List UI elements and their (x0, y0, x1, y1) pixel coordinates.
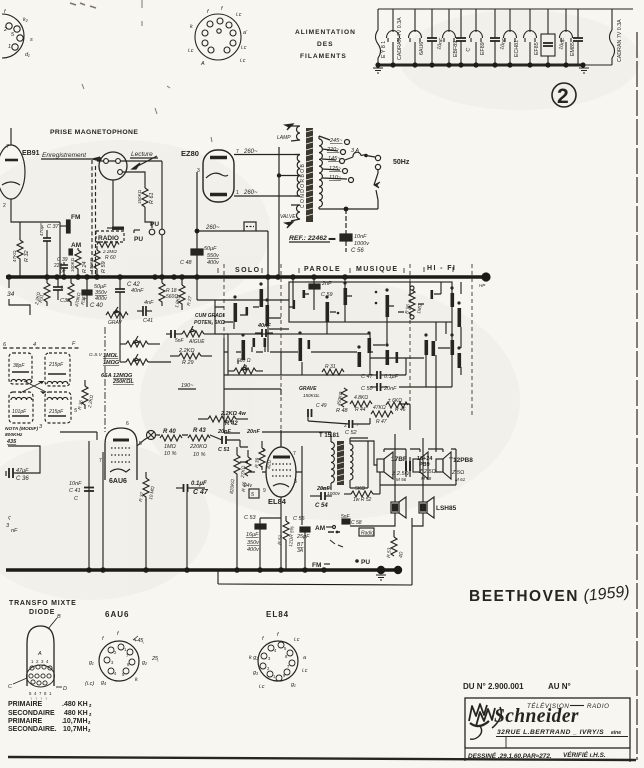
wire R61 down to PU (145, 211, 152, 228)
rotated tube labels (381, 17, 623, 62)
tube socket S2 (EM85 top) (188, 6, 248, 67)
test point (147, 431, 156, 440)
svg-text:800KHz: 800KHz (5, 432, 23, 438)
resistor R52 5K 1w (344, 486, 380, 503)
svg-text:k g₂: k g₂ (249, 655, 259, 661)
svg-text:T 15.81: T 15.81 (319, 433, 340, 439)
note 50nF 1000v (320, 486, 341, 497)
svg-text:PU: PU (150, 221, 159, 228)
svg-text:20nF: 20nF (246, 429, 260, 435)
svg-text:PAROLE: PAROLE (304, 266, 341, 273)
svg-text:i.c: i.c (236, 12, 242, 18)
svg-text:FILAMENTS: FILAMENTS (300, 53, 347, 60)
svg-text:215pF: 215pF (48, 362, 64, 368)
svg-text:D: D (63, 686, 67, 692)
svg-text:7: 7 (99, 458, 102, 464)
svg-text:2: 2 (3, 203, 6, 209)
svg-text:BEETHOVEN: BEETHOVEN (469, 588, 579, 605)
note CUM GRADI POTEN 5K (194, 313, 225, 326)
heater EF85 (524, 9, 537, 65)
stray note 3nF (6, 516, 18, 534)
svg-text:g₂: g₂ (142, 660, 148, 666)
svg-text:R 40: R 40 (163, 429, 176, 435)
potentiometer (volume) (120, 311, 171, 365)
fuse box (244, 222, 268, 276)
svg-text:VALVE: VALVE (280, 214, 296, 220)
svg-text:27KΩ: 27KΩ (240, 465, 247, 479)
switch RADIO (dashed box) (96, 227, 124, 243)
svg-text:PRIMAIRE: PRIMAIRE (8, 718, 43, 725)
capacitor (crossover) (406, 461, 410, 471)
ground bus (lower) (6, 568, 398, 571)
label AM (315, 525, 336, 532)
svg-text:7: 7 (6, 144, 9, 150)
svg-text:R 39: R 39 (254, 457, 261, 468)
svg-text:L: L (61, 285, 64, 291)
wires lower network (236, 322, 461, 358)
resistor R51 vertical (277, 516, 296, 570)
svg-text:i.c: i.c (302, 668, 308, 674)
svg-text:T12PB8: T12PB8 (449, 457, 473, 464)
svg-text:1MΩL: 1MΩL (103, 353, 119, 359)
svg-text:190~: 190~ (181, 383, 194, 389)
taps: 245 220 145 125 110 with terminals (326, 138, 354, 183)
svg-text:34: 34 (7, 291, 15, 298)
resistor R35 470K (68, 277, 87, 307)
svg-text:C 52: C 52 (345, 430, 357, 436)
svg-text:eine: eine (611, 730, 621, 736)
svg-text:C: C (8, 684, 12, 690)
svg-text:5KΩ: 5KΩ (355, 486, 365, 492)
svg-text:0.1μF: 0.1μF (191, 481, 207, 487)
node 190~ (178, 383, 196, 389)
capacitor C40 50uF 350v 400v (82, 277, 108, 309)
resistor R56 (in box) (404, 286, 423, 319)
bus junction dots (6, 274, 348, 280)
cathode wire down to node 260~ (197, 172, 244, 231)
IF transformer 215pF (45, 353, 70, 386)
resistor R60 2.2M (horizontal) (97, 242, 119, 262)
hifi feed wires (388, 358, 436, 404)
speaker return wires (350, 441, 456, 494)
NOTA note (5, 426, 38, 445)
resistor R46b 820K vertical (229, 447, 248, 570)
resistor R44 4.8K (350, 395, 372, 413)
svg-text:AU N°: AU N° (548, 682, 571, 691)
svg-text:101pF: 101pF (12, 409, 27, 415)
potentiometer AIGUE (175, 326, 215, 345)
IF transformer 101pF (9, 392, 33, 423)
capacitor C36 47uF (6, 468, 29, 482)
wires around EL84 (240, 432, 302, 570)
svg-text:1: 1 (236, 190, 239, 196)
label REF: 22462 (289, 235, 336, 242)
svg-text:R 29: R 29 (182, 360, 194, 366)
filament ground bus (bottom) (377, 64, 584, 67)
keyboard column dashed lines (224, 264, 472, 430)
capacitor C37 470pF (39, 223, 60, 276)
svg-text:g₄: g₄ (101, 680, 106, 686)
resistor 27K vertical (240, 450, 253, 489)
svg-text:LSH85: LSH85 (436, 505, 457, 512)
svg-text:3: 3 (294, 479, 297, 485)
capacitor C42 40nF (115, 277, 144, 311)
svg-text:7: 7 (236, 149, 239, 155)
svg-text:R 51: R 51 (277, 534, 284, 545)
svg-text:400v: 400v (207, 260, 220, 266)
svg-text:HI - FI: HI - FI (427, 265, 456, 272)
chassis return wire (218, 584, 412, 585)
module boundary (dash-dot) (104, 327, 106, 432)
svg-text:1MΩG: 1MΩG (103, 360, 120, 366)
svg-text:EL84: EL84 (266, 610, 289, 619)
svg-text:CUM GRADI: CUM GRADI (195, 313, 224, 319)
label PU (power stage) (355, 559, 370, 566)
sheet right border (636, 32, 638, 760)
wires upper network (215, 300, 289, 334)
wire vertical to bus (88, 441, 90, 570)
tube EB91 (0, 128, 60, 228)
svg-text:B: B (57, 614, 61, 620)
inner step line (505, 737, 507, 748)
svg-text:DIODE: DIODE (29, 609, 55, 616)
svg-text:260~: 260~ (205, 225, 220, 231)
label Lecture (underlined, arrow) (130, 151, 158, 169)
filament supply rail (top) (378, 8, 633, 10)
svg-text:350v: 350v (247, 540, 260, 546)
svg-text:47KΩ: 47KΩ (373, 405, 386, 411)
svg-text:C 37: C 37 (47, 224, 60, 230)
svg-text:ECH81: ECH81 (514, 40, 520, 57)
svg-text:G.S.V: G.S.V (89, 352, 103, 358)
svg-text:6AU6: 6AU6 (105, 610, 129, 619)
misc wires keyboard to lower stage (197, 277, 461, 452)
capacitor C38 (53, 277, 71, 304)
drawn/checked strip (465, 748, 630, 762)
keyboard labels (235, 265, 456, 274)
svg-text:POTENₐ 5KΩ: POTENₐ 5KΩ (194, 320, 225, 326)
svg-text:4Ω: 4Ω (398, 551, 405, 558)
keyboard upper box (289, 282, 452, 322)
heater EF89 (470, 9, 483, 65)
svg-text:100KΩ: 100KΩ (70, 257, 75, 272)
PU terminals (134, 221, 165, 276)
svg-text:EBF89: EBF89 (453, 41, 459, 57)
svg-text:10 %: 10 % (193, 452, 206, 458)
svg-text:1: 1 (8, 44, 11, 50)
resistor R18 560 (159, 277, 178, 306)
resistor R48 450K vertical (336, 388, 349, 414)
svg-text:M 56: M 56 (396, 477, 407, 482)
switch Radio box (328, 528, 374, 547)
svg-text:ALIMENTATION: ALIMENTATION (295, 29, 356, 36)
svg-text:470pF: 470pF (39, 223, 44, 236)
label FM (312, 562, 330, 569)
svg-text:110~: 110~ (329, 175, 342, 181)
svg-text:2̇5̨: 2̇5̨ (151, 656, 159, 662)
tweeter feed wires (350, 434, 423, 585)
wires to 6AU6 (60, 432, 97, 440)
pin 5 box (249, 489, 259, 498)
svg-text:GRAVE: GRAVE (299, 386, 317, 392)
capacitor C58 5nF (341, 514, 362, 526)
svg-text:R 61: R 61 (149, 192, 155, 204)
capacitor C41b 10nF (69, 481, 94, 502)
svg-text:EL84: EL84 (268, 497, 287, 506)
IF transformer 38pF (9, 353, 32, 384)
svg-text:LAMP: LAMP (277, 135, 291, 141)
svg-text:EF89: EF89 (480, 42, 486, 55)
svg-text:NOTA (MODIF): NOTA (MODIF) (5, 426, 38, 432)
svg-text:AM: AM (315, 525, 325, 532)
potentiometer GRAV (106, 307, 128, 326)
svg-text:C 49: C 49 (316, 403, 327, 409)
svg-text:g₁: g₁ (89, 660, 94, 666)
heater CADRAN 7V 0.3A (387, 9, 400, 65)
output transformer T15.81 (302, 432, 368, 490)
resistor R24 100K (vertical) (70, 248, 88, 276)
resistor R42 2.2K 4w (198, 411, 260, 435)
svg-text:1000v: 1000v (354, 241, 370, 247)
DIN connector (prise) (97, 152, 162, 180)
svg-text:220~: 220~ (326, 147, 340, 153)
wire vertical to bus (2) (102, 452, 104, 570)
svg-text:2: 2 (3, 27, 7, 33)
svg-text:k: k (135, 677, 138, 683)
svg-text:17BF: 17BF (391, 456, 407, 463)
svg-text:PU: PU (134, 236, 143, 243)
resistor R45 47K (371, 405, 393, 425)
svg-text:Z 2.5Ω: Z 2.5Ω (418, 469, 436, 475)
interconnect wires (215, 282, 461, 433)
coupling arrows (20, 381, 46, 393)
heater 6AU6 (409, 9, 422, 65)
wire (9, 299, 30, 315)
resistor (lower box right) (322, 364, 344, 375)
resistor R29 2.2K (170, 348, 212, 366)
svg-text:k: k (190, 24, 193, 30)
svg-text:1MΩ: 1MΩ (164, 444, 176, 450)
capacitor C54 20nF (310, 486, 332, 509)
wire plate 260~ bottom (234, 190, 300, 196)
svg-text:i.c: i.c (240, 58, 246, 64)
svg-text:R 53: R 53 (386, 547, 393, 558)
svg-text:480 KH: 480 KH (64, 701, 88, 708)
junction dots on filament bus (375, 62, 585, 67)
svg-text:PRIMAIRE: PRIMAIRE (8, 701, 43, 708)
heater ECH81 (504, 9, 517, 65)
svg-text:5nF: 5nF (175, 338, 185, 344)
svg-text:C 47: C 47 (193, 489, 209, 496)
svg-text:R 60: R 60 (105, 255, 116, 261)
transfo mixte can (8, 614, 67, 701)
svg-text:2nF: 2nF (321, 281, 332, 287)
resistor R27 1.8K (174, 277, 193, 310)
svg-text:(i.c): (i.c) (85, 681, 94, 687)
svg-text:↑: ↑ (45, 696, 47, 701)
svg-text:245~: 245~ (329, 138, 343, 144)
svg-text:Radio: Radio (361, 531, 374, 537)
resistor R61 150K (137, 188, 155, 211)
capacitor C48 50uF 550v 400v (180, 229, 220, 276)
capacitor C47 0.1uF (361, 371, 399, 380)
wires anode row (137, 435, 240, 447)
dashed record wires down to bus (91, 160, 93, 276)
ground (left end) (373, 68, 383, 73)
svg-text:TRANSFO MIXTE: TRANSFO MIXTE (9, 600, 77, 607)
svg-text:C41: C41 (143, 318, 153, 324)
resistor R39 vertical (254, 443, 273, 469)
svg-text:25μF: 25μF (296, 534, 310, 540)
svg-text:M 61: M 61 (455, 477, 466, 482)
switch contact bars (lower row) (242, 338, 462, 368)
svg-text:nF: nF (11, 528, 18, 534)
svg-text:EM85: EM85 (570, 42, 576, 56)
svg-text:260~: 260~ (243, 190, 258, 196)
svg-text:C 51: C 51 (218, 447, 230, 453)
capacitor 5nF (166, 330, 185, 344)
svg-text:40nF: 40nF (257, 323, 271, 329)
label FM + contact bar (60, 214, 80, 276)
resistor R32 47K (vertical) (12, 228, 30, 276)
capacitor 40nF (255, 323, 273, 337)
svg-text:DU N° 2.900.001: DU N° 2.900.001 (463, 682, 524, 691)
tweeter 2 LSH85 (419, 497, 457, 518)
svg-text:PRISE MAGNETOPHONE: PRISE MAGNETOPHONE (50, 129, 138, 136)
capacitor C59 2nF (309, 277, 333, 300)
placeholder groups (2, 0, 356, 142)
tube socket S1 (partial, left edge) (2, 9, 33, 58)
svg-text:+4̇5̨: +4̇5̨ (134, 638, 144, 644)
svg-text:260~: 260~ (243, 149, 258, 155)
winding VALVE (bottom left) (280, 205, 300, 228)
Schneider antler logo (469, 704, 495, 739)
heater EBF89 (443, 9, 456, 65)
svg-text:R 32: R 32 (24, 250, 30, 262)
svg-text:CADRAN 7V 0.3A: CADRAN 7V 0.3A (617, 19, 623, 62)
capacitor C50 20nF (361, 383, 397, 392)
svg-text:150KΩ: 150KΩ (137, 189, 142, 204)
svg-text:4.8KΩ: 4.8KΩ (354, 395, 368, 401)
wire: lecture line to PU (161, 161, 163, 229)
tube EL84 (262, 447, 297, 506)
svg-text:2.2MΩ: 2.2MΩ (102, 249, 117, 254)
capacitor C (456, 9, 466, 65)
svg-text:50μF: 50μF (204, 246, 217, 252)
svg-text:C 53: C 53 (244, 515, 257, 521)
svg-text:RADIO: RADIO (98, 235, 119, 242)
label Enregistrement (underlined, arrow) (41, 152, 100, 161)
scan marks (corner) (70, 0, 212, 142)
heater EM85 (560, 9, 573, 65)
svg-text:DESSINÉ .29.1.60.PAR≈272.: DESSINÉ .29.1.60.PAR≈272. (468, 751, 552, 760)
svg-text:REF.: 22462 ▬: REF.: 22462 ▬ (289, 235, 336, 242)
speaker 17BF (377, 452, 409, 482)
resistor R36 2.2K vertical (77, 380, 94, 410)
address line (496, 729, 628, 737)
label GRAVE (299, 386, 327, 417)
svg-text:i.c: i.c (294, 637, 300, 643)
capacitor 10nF (490, 9, 500, 65)
svg-text:PU: PU (361, 559, 370, 566)
speaker feed wires (350, 441, 456, 465)
svg-text:32RUE L.BERTRAND _ IVRY/S: 32RUE L.BERTRAND _ IVRY/S (497, 729, 604, 736)
svg-text:47KΩ: 47KΩ (12, 250, 17, 262)
IF transformer 215pF (2) (39, 392, 78, 430)
sheet bottom border (8, 757, 636, 760)
svg-text:470KΩ: 470KΩ (89, 257, 94, 272)
resistor R43 220K (188, 428, 210, 458)
svg-text:↓: ↓ (356, 422, 359, 428)
svg-text:480 KH: 480 KH (64, 710, 88, 717)
svg-text:SOLO: SOLO (235, 267, 260, 274)
svg-text:2: 2 (262, 448, 265, 454)
node 34 (7, 277, 15, 298)
svg-text:MUSIQUE: MUSIQUE (356, 266, 398, 273)
speaker PB9 (413, 452, 436, 481)
svg-text:pF: pF (60, 269, 66, 275)
page number 2 (circled) (552, 83, 576, 108)
svg-text:R 31: R 31 (325, 364, 336, 370)
svg-text:10,7MH: 10,7MH (63, 726, 88, 733)
scan fog (0, 10, 640, 600)
ground symbol (376, 575, 386, 580)
svg-text:d₁: d₁ (25, 52, 30, 58)
wire plate 260~ top (234, 149, 300, 155)
capacitor 10nF (573, 9, 583, 65)
svg-text:38pF: 38pF (13, 363, 25, 369)
svg-text:C 55: C 55 (293, 516, 306, 522)
label ALIMENTATION DES FILAMENTS (295, 29, 356, 60)
capacitor C56 10nF 1000v (340, 209, 370, 254)
resistor R40 1M (160, 429, 182, 457)
svg-text:Enregistrement: Enregistrement (42, 152, 87, 159)
label TRANSFO MIXTE DIODE (9, 600, 77, 616)
ground (right end) (579, 68, 589, 73)
svg-text:1000v: 1000v (327, 491, 341, 497)
socket 6AU6 (85, 631, 159, 687)
svg-text:R 47: R 47 (376, 419, 387, 425)
svg-text:Schneider: Schneider (494, 706, 579, 727)
svg-text:10,7MH: 10,7MH (63, 718, 88, 725)
svg-text:6: 6 (126, 421, 129, 427)
svg-text:A: A (200, 61, 205, 67)
svg-text:R 48: R 48 (336, 408, 349, 414)
svg-text:g₁: g₁ (291, 682, 296, 688)
svg-text:C: C (74, 496, 78, 502)
svg-text:C 41: C 41 (69, 488, 81, 494)
label AM + cap (69, 242, 81, 255)
svg-text:6AU6: 6AU6 (419, 42, 425, 55)
svg-text:7: 7 (293, 451, 296, 457)
svg-text:FM: FM (71, 214, 80, 221)
resistor R31 2.2K (34, 277, 50, 306)
svg-text:435: 435 (6, 439, 17, 445)
heater CADRAN 7V 0.3A (right) (610, 9, 615, 65)
transformer T: core (300, 128, 313, 222)
resistor R59 470K (vertical) (89, 246, 107, 276)
svg-text:3A: 3A (297, 548, 304, 554)
IF nodes 6 4 F (3, 341, 80, 348)
svg-text:250KΩL: 250KΩL (112, 379, 134, 385)
svg-text:CADRAN 7V 0.3A: CADRAN 7V 0.3A (397, 17, 403, 60)
svg-text:10nF: 10nF (69, 481, 82, 487)
switch contact bars (upper row) (234, 288, 462, 327)
tweeter 1 (391, 497, 406, 518)
svg-text:C 56: C 56 (351, 248, 364, 254)
resistor R53 vertical (386, 530, 405, 558)
speaker T12PB8 (436, 452, 473, 482)
